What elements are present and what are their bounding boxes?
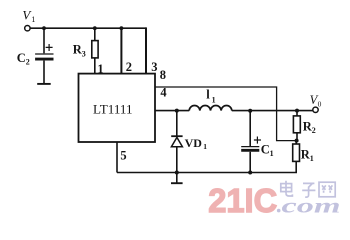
resistor R1 <box>293 141 300 162</box>
svg-text:VD: VD <box>185 136 203 150</box>
svg-text:com: com <box>282 193 341 217</box>
node diode top <box>175 109 179 113</box>
label R3 <box>73 43 86 59</box>
label C2 <box>17 51 30 67</box>
watermark chinese chars 电子网 <box>281 181 335 197</box>
svg-text:3: 3 <box>82 49 86 58</box>
watermark 21IC.com logo <box>208 181 340 219</box>
svg-text:1: 1 <box>31 14 35 24</box>
node pin2 junction <box>120 26 124 30</box>
wire bottom rail <box>117 161 296 172</box>
ground <box>171 173 183 184</box>
resistor R3 <box>92 28 98 73</box>
node C2 junction <box>42 26 46 30</box>
node R1 R2 junction <box>295 139 299 143</box>
resistor R2 <box>293 111 300 141</box>
svg-text:C: C <box>17 51 26 65</box>
wire top rail <box>30 27 146 29</box>
svg-text:0: 0 <box>318 99 322 108</box>
label VD1 <box>185 136 208 151</box>
wire pin 5 <box>116 142 118 173</box>
svg-text:3: 3 <box>151 60 157 74</box>
output terminal V0 <box>313 107 318 112</box>
wire pin 2 <box>120 28 122 73</box>
inductor L1 <box>189 106 232 111</box>
wire pin 3 (rail corner) <box>145 27 147 73</box>
input terminal V1 <box>25 26 30 31</box>
svg-text:5: 5 <box>120 149 126 163</box>
svg-text:2: 2 <box>26 58 30 67</box>
label R2 <box>303 119 316 135</box>
label C1 <box>261 142 274 157</box>
ground C2 return <box>37 83 51 85</box>
svg-text:2: 2 <box>126 60 132 74</box>
svg-text:1: 1 <box>212 96 216 105</box>
label V1 <box>22 8 35 24</box>
label L1 <box>206 87 215 104</box>
svg-text:4: 4 <box>160 86 167 100</box>
node R2 top <box>295 109 299 113</box>
capacitor C1 <box>241 111 261 173</box>
IC U1 LT1111 <box>79 74 156 142</box>
wire pin 4 output line <box>155 110 313 112</box>
node R3 junction <box>93 26 97 30</box>
svg-text:2: 2 <box>312 126 316 135</box>
wire C2 drop <box>43 28 45 53</box>
svg-text:1: 1 <box>270 149 274 158</box>
svg-text:21IC: 21IC <box>208 182 277 219</box>
svg-text:8: 8 <box>160 68 166 82</box>
svg-text:1: 1 <box>203 142 207 151</box>
node diode bottom <box>175 171 179 175</box>
svg-text:l: l <box>206 87 210 101</box>
svg-text:C: C <box>261 142 270 156</box>
diode VD1 <box>171 111 182 173</box>
node C1 top <box>248 109 252 113</box>
watermark .com <box>277 209 281 213</box>
svg-text:1: 1 <box>310 154 314 163</box>
node C1 bottom <box>248 171 252 175</box>
wire pin 8 feedback <box>155 87 296 141</box>
svg-text:LT1111: LT1111 <box>93 103 133 117</box>
label V0 <box>310 93 322 108</box>
label R1 <box>301 147 314 163</box>
capacitor C2 <box>35 44 53 83</box>
